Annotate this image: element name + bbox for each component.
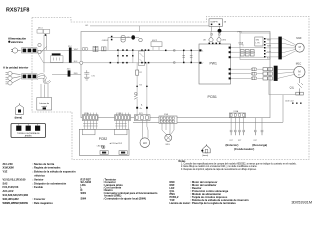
svg-text:S10,S20,S40,S70,S80: S10,S20,S40,S70,S80 — [3, 193, 29, 197]
thermistor R1T — [230, 130, 264, 135]
wire rail2 diagonal — [37, 52, 44, 63]
connector strip S21 — [134, 115, 150, 121]
svg-text:1. Consulte las especificacion: 1. Consulte las especificaciones de comp… — [181, 163, 297, 166]
svg-text:eléctrica: eléctrica — [11, 40, 23, 44]
power module PW1 — [199, 44, 231, 84]
svg-text:R2: R2 — [139, 72, 141, 74]
svg-text:V2,V3,V5,L1R,V100: V2,V3,V5,L1R,V100 — [3, 177, 27, 181]
svg-text:S90: S90 — [256, 40, 259, 42]
wires to compressor — [278, 69, 295, 78]
connector strip X1B — [115, 115, 131, 121]
svg-text:M1S: M1S — [166, 144, 171, 146]
ferrite core Z1C bar — [69, 48, 72, 63]
ferrite bead W — [251, 77, 257, 80]
varistor V3 — [217, 38, 221, 42]
svg-text:: Fusible: : Fusible — [33, 185, 44, 189]
svg-text:RED: RED — [74, 73, 79, 75]
svg-text:LED A: LED A — [97, 144, 103, 147]
capacitor to ground C1 — [84, 70, 90, 80]
transformer TRM box — [151, 42, 162, 47]
legend middle column — [81, 177, 158, 200]
resistor chain — [136, 63, 138, 70]
svg-text:3. Después de imprimir, adjunt: 3. Después de imprimir, adjunte la capa … — [181, 168, 257, 171]
pressure sensor S1NPH box — [209, 19, 223, 27]
svg-text:FU1,FU2,FU3: FU1,FU2,FU3 — [3, 185, 19, 189]
svg-text:S1NPH: S1NPH — [210, 21, 217, 23]
svg-text:CD3 CD2: CD3 CD2 — [285, 101, 294, 103]
connector pair S20 — [93, 46, 98, 51]
wire rail1 — [37, 49, 199, 51]
wire fan rails — [231, 47, 264, 49]
wire riser right — [282, 95, 284, 123]
PW1 right pins fan — [229, 47, 231, 49]
svg-text:: Varistor: : Varistor — [33, 177, 44, 181]
svg-text:X1M,X2M: X1M,X2M — [3, 166, 14, 170]
ferrite bead U — [251, 68, 257, 71]
relay contact K1M — [38, 43, 47, 53]
plug icons indoor wires — [6, 71, 21, 85]
svg-text:Z1C: Z1C — [68, 46, 72, 48]
thermistor wires — [231, 117, 262, 129]
ferrite core fan bar — [278, 37, 281, 60]
svg-text:eléctrica: eléctrica — [34, 174, 45, 178]
svg-text:Q1L: Q1L — [290, 87, 295, 90]
cable clamp metal plate box — [37, 98, 52, 111]
svg-text:PW1: PW1 — [210, 62, 217, 66]
connector pin — [136, 107, 138, 109]
svg-text:SA2: SA2 — [3, 181, 9, 185]
relay K1R box — [139, 51, 145, 66]
svg-text:X11A: X11A — [233, 110, 238, 113]
wire twisted pair arcs — [37, 74, 51, 84]
wires to buzzer H3 — [142, 121, 144, 139]
terminal block X1M row2 — [22, 74, 38, 79]
svg-text:X2A: X2A — [85, 112, 89, 115]
fan drive box — [240, 33, 270, 60]
svg-text:: Conmutador de ajuste local (: : Conmutador de ajuste local (SW4) — [103, 196, 146, 200]
svg-text:: Regleta de terminales: : Regleta de terminales — [33, 166, 61, 170]
capacitor blob — [131, 35, 135, 39]
control board PCB2 — [79, 129, 129, 155]
terminal block X1M row1 — [22, 48, 38, 53]
connector X5A — [119, 151, 127, 155]
svg-text:Z1C-Z4C: Z1C-Z4C — [3, 162, 14, 166]
svg-text:L05: L05 — [85, 25, 88, 27]
ferrite bar horizontal — [52, 53, 61, 55]
svg-text:R4: R4 — [139, 84, 141, 86]
junction pins — [165, 50, 167, 52]
capacitor blob under S1NPH — [218, 29, 222, 33]
svg-text:(tierra): (tierra) — [202, 154, 208, 157]
svg-text:Lámina de metal: Lámina de metal — [170, 201, 190, 205]
varistor V2 — [209, 38, 213, 42]
wire upper feed — [108, 36, 139, 38]
strip lead ticks — [84, 113, 128, 115]
wires to fan motor — [266, 39, 296, 57]
svg-text:: Conector: : Conector — [33, 197, 46, 201]
svg-text:X70A: X70A — [238, 41, 243, 44]
legend left column — [3, 162, 76, 205]
LED A — [102, 145, 105, 148]
svg-text:2. Este dibujo se realizó con: 2. Este dibujo se realizó con el sistema… — [181, 165, 258, 168]
connector X4A — [100, 151, 108, 155]
connector pair below OL — [296, 92, 300, 95]
svg-text:Y1E: Y1E — [3, 170, 8, 174]
house icon earth — [16, 103, 24, 114]
outdoor unit dashed boundary — [32, 16, 309, 159]
wire vertical L feed — [43, 35, 45, 73]
capacitor bank C1 C2 C3 — [240, 50, 254, 56]
buzzer H3 — [140, 138, 150, 148]
svg-text:TORNILLO A TIERRA DE: TORNILLO A TIERRA DE — [17, 132, 40, 135]
svg-text:◄CD3◄CD2: ◄CD3◄CD2 — [109, 142, 123, 145]
wire vertical N feed — [46, 35, 48, 51]
svg-text:AC1,AC2: AC1,AC2 — [3, 189, 14, 193]
svg-text:L 7R: L 7R — [256, 43, 261, 45]
svg-text:-Fu: -Fu — [139, 108, 142, 110]
wires to fan cap — [162, 123, 174, 134]
wire risers to cable clamp — [41, 84, 48, 98]
svg-text:PCB2: PCB2 — [99, 137, 108, 141]
wire long horizontal bus — [133, 121, 283, 123]
connector circle on board edge — [80, 61, 83, 64]
svg-text:478: 478 — [126, 37, 129, 39]
svg-text:: Núcleo de ferrita: : Núcleo de ferrita — [33, 162, 55, 166]
relay contact grid pins — [110, 49, 150, 63]
svg-text:: Disipador de sobretensión: : Disipador de sobretensión — [33, 181, 67, 185]
wire neutral loop — [268, 81, 270, 95]
svg-text:RXS71F8: RXS71F8 — [6, 8, 29, 14]
svg-text:S90,HR1,HR2: S90,HR1,HR2 — [3, 197, 20, 201]
ferrite core Z2C bar — [68, 70, 71, 76]
connector pair S10 — [82, 47, 88, 50]
svg-text:M1F: M1F — [296, 36, 302, 40]
svg-text:(Condensador): (Condensador) — [234, 147, 254, 151]
PW1 right pins compressor — [229, 68, 231, 70]
svg-text:PCB1: PCB1 — [208, 95, 217, 99]
connector X6A — [229, 113, 245, 117]
wire bundle left — [83, 121, 98, 130]
PW1 top pins — [209, 43, 211, 45]
svg-text:SW1: SW1 — [81, 191, 87, 195]
compressor connector blocks — [257, 69, 263, 78]
wire rail2 — [44, 62, 200, 64]
svg-text:M1C: M1C — [296, 61, 302, 65]
ferrite bead V — [251, 72, 257, 75]
sensor chain 2 — [146, 63, 148, 115]
connector S90 box — [255, 37, 263, 46]
svg-text:WRM1,WRM2,WRCW: WRM1,WRM2,WRCW — [3, 201, 29, 205]
house icon earth 2 — [203, 144, 210, 153]
svg-text:(Descarga): (Descarga) — [252, 143, 267, 147]
svg-text:M: M — [299, 45, 301, 49]
svg-text:(tierra): (tierra) — [15, 116, 23, 119]
svg-text:X2A: X2A — [164, 113, 168, 116]
connector pair S40 — [101, 47, 106, 51]
svg-text:SW4: SW4 — [81, 196, 87, 200]
PCB1 main board outline — [81, 32, 270, 118]
svg-text:Notas: Notas — [179, 160, 187, 163]
wire S1NPH right leg — [219, 26, 221, 31]
plug icon power supply — [11, 48, 21, 53]
svg-text:3D053931M: 3D053931M — [291, 201, 312, 205]
svg-text:(Exterior): (Exterior) — [226, 143, 239, 147]
PW1 left pins — [199, 49, 201, 51]
ferrite core compressor bar — [274, 66, 278, 81]
svg-text:: Placa fija de la regleta de: : Placa fija de la regleta de terminales — [191, 201, 237, 205]
svg-text:ARNÉS: ARNÉS — [25, 135, 33, 138]
capacitor bridge C11 — [184, 50, 192, 62]
connector pins column — [111, 36, 113, 38]
svg-text:H3: H3 — [143, 141, 147, 145]
legend right column — [170, 180, 249, 205]
svg-text:: Relé magnético: : Relé magnético — [33, 201, 54, 205]
thermistor designators — [230, 140, 258, 142]
svg-text:Z2C: Z2C — [67, 69, 71, 71]
component box below — [51, 56, 64, 63]
varistor V1 — [139, 38, 143, 42]
earth screw box — [11, 124, 46, 138]
svg-text:A la unidad interior: A la unidad interior — [3, 65, 29, 69]
motor M1S — [165, 134, 172, 141]
connector strip X2A — [82, 115, 98, 121]
fan connector pins — [264, 38, 266, 58]
svg-text:: Bobina de la válvula de expa: : Bobina de la válvula de expansión — [33, 170, 76, 174]
wire S1NPH left leg — [211, 26, 213, 31]
connector X2A swing — [159, 116, 177, 123]
svg-text:metal: metal — [42, 105, 48, 108]
fuse FU1 — [121, 36, 125, 42]
wires PW1 to compressor filters — [231, 69, 251, 78]
wire rail3 — [52, 74, 81, 76]
wire bundle right — [115, 121, 128, 130]
diode D1 — [135, 92, 138, 95]
svg-text:4SC2: 4SC2 — [152, 40, 158, 42]
